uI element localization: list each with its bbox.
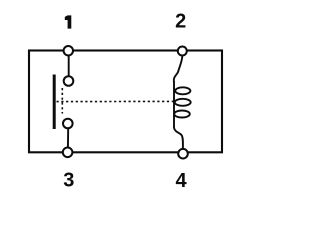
svg-text:4: 4: [175, 170, 187, 192]
svg-text:3: 3: [63, 170, 74, 192]
svg-text:2: 2: [175, 11, 186, 33]
